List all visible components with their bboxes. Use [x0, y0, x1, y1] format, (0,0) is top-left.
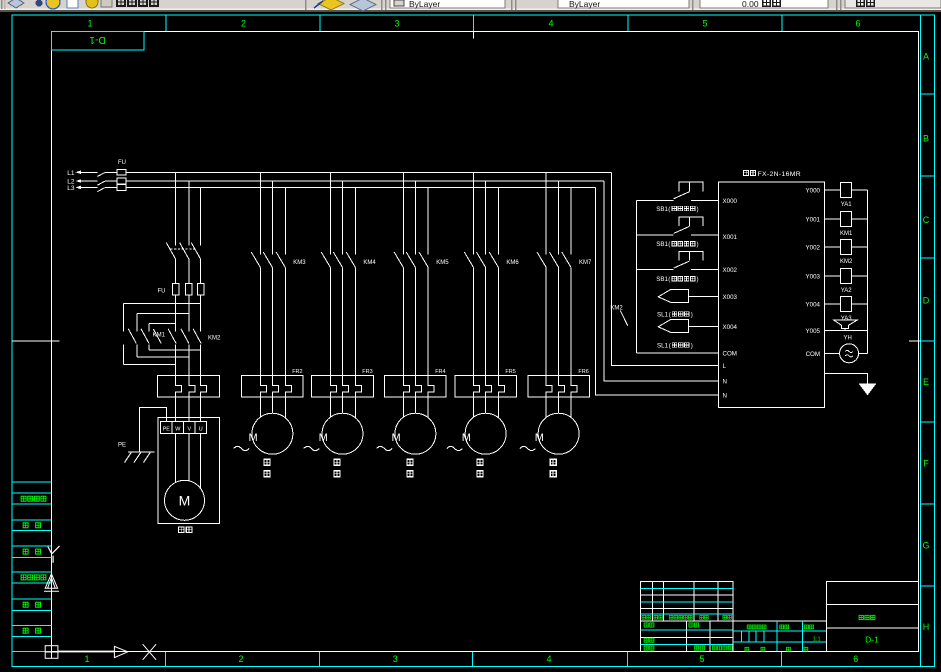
- wire branch3 phase drops: [330, 172, 355, 254]
- thermal relay FR3: [312, 376, 374, 398]
- label stage mark / weight / scale: [745, 625, 821, 651]
- motor M5 circle: [462, 413, 506, 454]
- ground earth (output side): [825, 374, 877, 396]
- svg-text:G: G: [922, 541, 929, 551]
- node check mark symbol on left border: [48, 546, 60, 563]
- label SB1 (start button): [656, 206, 698, 213]
- bottom zone dividers: [165, 651, 781, 666]
- motor M6 circle: [535, 413, 579, 454]
- svg-text:1: 1: [87, 19, 92, 29]
- top zone dividers: [166, 15, 782, 32]
- wire bus L3: [126, 186, 596, 188]
- label designer rows: [644, 623, 732, 650]
- right zone strip inner line: [919, 15, 921, 667]
- svg-text:N: N: [723, 393, 727, 400]
- contactor KM5 poles: [394, 252, 428, 267]
- title block name box: [827, 582, 919, 652]
- svg-text:ByLayer: ByLayer: [569, 0, 600, 9]
- left margin table vertical captions: [21, 496, 46, 633]
- label FR5: [505, 369, 515, 375]
- svg-text:4: 4: [548, 19, 553, 29]
- label drawing number D-1: [865, 634, 879, 644]
- label KM4: [363, 260, 376, 266]
- svg-text:KM2: KM2: [208, 335, 221, 341]
- contactor auxiliary contact KM2: [610, 305, 627, 325]
- svg-text:FR6: FR6: [578, 369, 588, 375]
- label KM6: [506, 260, 519, 266]
- thermal relay FR5: [455, 376, 517, 398]
- svg-text:V: V: [187, 426, 191, 432]
- pin L PLC input: [723, 363, 727, 370]
- wire branch2 to motor: [260, 397, 285, 418]
- wire bus L1: [126, 171, 612, 173]
- UCS icon X label (crosshair): [143, 644, 156, 660]
- svg-text:M: M: [249, 432, 258, 444]
- svg-text:SL1: SL1: [657, 311, 669, 318]
- svg-text:FU: FU: [158, 288, 166, 294]
- svg-text:FR4: FR4: [435, 369, 445, 375]
- svg-text:KM5: KM5: [436, 260, 449, 266]
- svg-text:5: 5: [699, 654, 704, 664]
- label SL1 (high water level): [657, 311, 693, 318]
- svg-text:M: M: [319, 432, 328, 444]
- svg-text:3: 3: [393, 654, 398, 664]
- svg-text:KM3: KM3: [293, 260, 306, 266]
- pushbutton SB1 stop: [636, 217, 718, 235]
- svg-text:KM1: KM1: [840, 231, 853, 237]
- label SL1 (low water level): [657, 342, 693, 349]
- pin Y000 PLC output: [806, 188, 821, 195]
- svg-text:2: 2: [241, 19, 246, 29]
- svg-text:C: C: [923, 215, 930, 225]
- svg-text:6: 6: [855, 19, 860, 29]
- svg-text:SB1: SB1: [656, 276, 668, 283]
- label ~ motor M2: [234, 446, 250, 450]
- contactor KM7 poles: [537, 252, 571, 267]
- wire branch3 drops to thermal relay: [330, 267, 355, 375]
- label motor4 name 单向: [407, 459, 413, 477]
- svg-text:B: B: [923, 134, 929, 144]
- wire control feeder N (from L2): [604, 181, 719, 381]
- wire branch6 to motor: [546, 397, 571, 418]
- svg-text:D: D: [923, 296, 930, 306]
- label PE: [118, 442, 126, 448]
- label drawing name 电气图: [859, 615, 875, 619]
- pin COM PLC input: [723, 351, 737, 358]
- svg-text:COM: COM: [723, 351, 737, 358]
- svg-text:FR5: FR5: [505, 369, 515, 375]
- label motor6 name 风机: [550, 459, 556, 477]
- wire bus L2: [126, 180, 604, 182]
- svg-text:X000: X000: [723, 198, 738, 205]
- label ~ motor M6: [520, 446, 536, 450]
- right zone row dividers: [920, 94, 934, 586]
- svg-text:E: E: [923, 377, 929, 387]
- coil YA3: [825, 297, 868, 323]
- label ~ motor M4: [377, 446, 393, 450]
- label FR3: [362, 369, 372, 375]
- svg-text:M: M: [535, 432, 544, 444]
- wire branch6 drops to thermal relay: [546, 267, 571, 375]
- svg-text:M: M: [179, 493, 191, 509]
- toolbar strip (cut off at top): [0, 0, 941, 12]
- svg-text:0.00: 0.00: [742, 0, 759, 9]
- svg-text:L: L: [723, 363, 727, 370]
- svg-text:1:1: 1:1: [813, 637, 821, 643]
- wire input COM: [636, 352, 718, 354]
- pin X004 PLC input: [723, 324, 738, 331]
- wire branch3 to motor: [330, 397, 355, 418]
- label PLC type 三菱FX-2N-16MR: [744, 170, 801, 178]
- wire PE to earth: [140, 408, 167, 452]
- float switch SL1 low level: [658, 319, 718, 332]
- PLC U1 Mitsubishi FX-2N-16MR: [719, 182, 825, 408]
- motor M1 circle: [165, 480, 205, 520]
- svg-text:KM4: KM4: [363, 260, 376, 266]
- wire branch1 phase drops: [176, 172, 201, 245]
- label KM1: [153, 332, 166, 338]
- coil YA2: [825, 269, 868, 295]
- coil KM1: [825, 212, 868, 238]
- pin Y004 PLC output: [806, 302, 821, 309]
- wire input common bus: [635, 200, 637, 353]
- label SB1 (drain button): [656, 276, 698, 283]
- svg-text:H: H: [923, 622, 930, 632]
- label motor1 name 电机: [179, 527, 192, 533]
- wire control feeder N2 (from L3): [596, 187, 719, 395]
- wire output common bus: [866, 190, 868, 353]
- node L2 phase entry: [67, 179, 81, 186]
- svg-text:YA2: YA2: [841, 288, 853, 294]
- label KM7: [579, 260, 592, 266]
- node L1 phase entry: [67, 170, 81, 177]
- node survey triangle symbol on left border: [44, 574, 59, 592]
- svg-text:M: M: [462, 432, 471, 444]
- pushbutton SB1 start: [636, 182, 718, 200]
- pin N PLC input: [723, 379, 727, 386]
- node L3 phase entry: [67, 185, 81, 192]
- motor M4 circle: [392, 413, 436, 454]
- svg-text:2: 2: [238, 654, 243, 664]
- pin COM PLC output: [806, 351, 820, 358]
- svg-text:KM7: KM7: [579, 260, 592, 266]
- title block revision table: [640, 582, 733, 622]
- thermal relay FR1: [158, 376, 220, 398]
- horn YH: [825, 320, 868, 341]
- svg-text:Y003: Y003: [806, 274, 821, 281]
- motor M2 circle: [249, 413, 293, 454]
- svg-text:5: 5: [702, 19, 707, 29]
- svg-text:D-1: D-1: [89, 34, 106, 45]
- wire branch5 drops to thermal relay: [474, 267, 499, 375]
- svg-text:): ): [691, 342, 693, 349]
- contactor KM3 poles: [251, 252, 285, 267]
- svg-text:SB1: SB1: [656, 241, 668, 248]
- left margin table rows: [12, 482, 52, 637]
- svg-text:N: N: [723, 379, 727, 386]
- wire branch2 drops to thermal relay: [260, 267, 285, 375]
- svg-text:FR3: FR3: [362, 369, 372, 375]
- contactor KM1 poles: [128, 329, 161, 344]
- label SB1 (stop button): [656, 241, 698, 248]
- wire branch1 lower drops: [176, 344, 201, 375]
- svg-text:X004: X004: [723, 324, 738, 331]
- wire branch2 phase drops: [260, 172, 285, 254]
- title block signature table: [640, 621, 733, 651]
- wire reversing loop top crossovers: [123, 303, 200, 323]
- label ~ motor M5: [447, 446, 463, 450]
- svg-text:Y002: Y002: [806, 245, 821, 252]
- svg-text:X001: X001: [723, 234, 738, 241]
- wire branch4 drops to thermal relay: [403, 267, 428, 375]
- svg-text:KM6: KM6: [506, 260, 519, 266]
- UCS icon X axis arrow: [58, 646, 128, 657]
- svg-text:SB1: SB1: [656, 206, 668, 213]
- label KM5: [436, 260, 449, 266]
- pin Y005 PLC output: [806, 328, 821, 335]
- fuse FU branch1, 3 fuses: [158, 283, 204, 295]
- svg-text:F: F: [923, 459, 929, 469]
- wire branch4 phase drops: [403, 172, 428, 254]
- svg-text:A: A: [923, 52, 929, 62]
- svg-text:6: 6: [853, 654, 858, 664]
- label ~ motor M3: [304, 446, 320, 450]
- D-1 zone label box (top left, cyan): [52, 31, 145, 50]
- svg-text:D-1: D-1: [865, 634, 879, 644]
- pin Y003 PLC output: [806, 274, 821, 281]
- svg-text:FR2: FR2: [292, 369, 302, 375]
- wire reversing loop verticals: [123, 303, 149, 364]
- svg-text:4: 4: [546, 654, 551, 664]
- wire branch5 to motor: [474, 397, 499, 418]
- svg-text:): ): [697, 206, 699, 213]
- svg-text:Y000: Y000: [806, 188, 821, 195]
- motor M1 enclosure box: [158, 418, 220, 524]
- coil KM2: [825, 240, 868, 266]
- pin N PLC input: [723, 393, 727, 400]
- label KM2: [208, 335, 221, 341]
- svg-text:): ): [691, 311, 693, 318]
- wire branch4 to motor: [403, 397, 428, 418]
- svg-text:YA1: YA1: [841, 202, 853, 208]
- svg-text:Y005: Y005: [806, 328, 821, 335]
- svg-text:Y004: Y004: [806, 302, 821, 309]
- UCS icon origin box: [45, 646, 58, 659]
- svg-text:W: W: [175, 426, 181, 432]
- svg-text:ByLayer: ByLayer: [409, 0, 440, 9]
- svg-text:3: 3: [394, 19, 399, 29]
- contactor KM4 poles: [321, 252, 355, 267]
- pin Y001 PLC output: [806, 217, 821, 224]
- sheet centre tick marks: [12, 31, 920, 341]
- label FR4: [435, 369, 445, 375]
- disconnect switch QS main incoming, 3 poles: [81, 172, 105, 191]
- fuse FU main, 3 fuses: [105, 160, 126, 190]
- svg-text:1: 1: [84, 654, 89, 664]
- wire reversing loop bottom crossovers: [123, 350, 200, 365]
- thermal relay FR6: [528, 376, 590, 398]
- wire terminals to motor M1: [176, 433, 201, 488]
- AC source COM circle: [825, 344, 868, 363]
- wire branch1 mid drops: [176, 259, 201, 284]
- contactor KM2 poles: [168, 329, 201, 344]
- svg-text:KM2: KM2: [840, 259, 853, 265]
- thermal relay FR4: [385, 376, 447, 398]
- label revision header row: [642, 615, 731, 619]
- label motor3 name 单向: [334, 459, 340, 477]
- label motor2 name 单向: [264, 459, 270, 477]
- contactor KM6 poles: [464, 252, 498, 267]
- pin X003 PLC input: [723, 294, 738, 301]
- svg-text:FU: FU: [118, 160, 126, 166]
- wire branch1 FR1 to motor terminals: [176, 397, 201, 422]
- svg-text:PE: PE: [118, 442, 126, 448]
- svg-text:SL1: SL1: [657, 342, 669, 349]
- svg-text:KM2: KM2: [610, 305, 623, 311]
- coil YA1: [825, 183, 868, 209]
- wire branch5 phase drops: [474, 172, 499, 254]
- svg-text:X003: X003: [723, 294, 738, 301]
- label FR2: [292, 369, 302, 375]
- label KM3: [293, 260, 306, 266]
- pushbutton SB1 drain: [636, 252, 718, 270]
- svg-text:YA3: YA3: [841, 316, 853, 322]
- svg-text:): ): [697, 276, 699, 283]
- pin Y002 PLC output: [806, 245, 821, 252]
- main schematic white linework: [67, 160, 876, 533]
- svg-text:X002: X002: [723, 267, 738, 274]
- float switch SL1 high level: [658, 289, 718, 302]
- svg-text:L1: L1: [67, 170, 75, 177]
- wire branch1 drops to contactor: [176, 295, 201, 331]
- pin X002 PLC input: [723, 267, 738, 274]
- wire control feeder L (from L1): [612, 172, 719, 365]
- svg-text:COM: COM: [806, 351, 820, 358]
- svg-text:): ): [697, 241, 699, 248]
- ground PE earth electrode: [125, 452, 155, 463]
- title block: [44, 546, 918, 660]
- svg-text:U: U: [199, 426, 203, 432]
- wire branch6 phase drops: [546, 172, 571, 254]
- bottom zone strip top line (left of frame, cyan): [12, 650, 52, 652]
- disconnect switch QS1 branch1 with linkage: [166, 243, 200, 259]
- svg-text:PE: PE: [163, 426, 171, 432]
- svg-text:YH: YH: [844, 336, 852, 342]
- label motor5 name 水泵: [477, 459, 483, 477]
- svg-text:Y001: Y001: [806, 217, 821, 224]
- svg-text:L3: L3: [67, 185, 75, 192]
- svg-text:FX-2N-16MR: FX-2N-16MR: [758, 171, 802, 178]
- svg-text:KM1: KM1: [153, 332, 166, 338]
- motor terminal box PE W V U: [161, 422, 207, 434]
- pin X000 PLC input: [723, 198, 738, 205]
- label FR6: [578, 369, 588, 375]
- title block scale table: [733, 621, 827, 651]
- motor M3 circle: [319, 413, 363, 454]
- svg-text:M: M: [392, 432, 401, 444]
- thermal relay FR2: [242, 376, 304, 398]
- pin X001 PLC input: [723, 234, 738, 241]
